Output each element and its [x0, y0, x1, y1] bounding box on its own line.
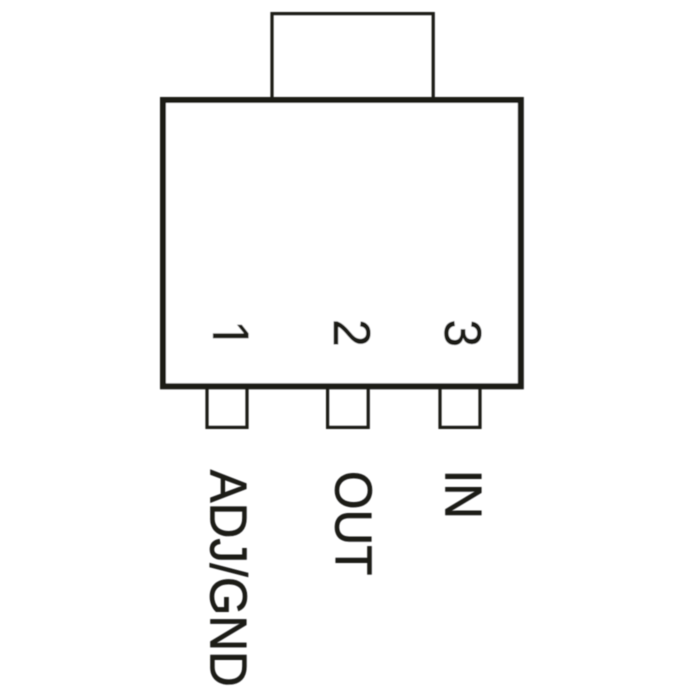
package tab (metal heatsink tab of SOT-89): [272, 14, 433, 102]
package body: [163, 100, 521, 386]
svg-text:3: 3: [434, 320, 492, 348]
svg-text:OUT: OUT: [324, 471, 382, 575]
pin number 1 (custom path, Arial-style rotated 90deg: horizontal stem + flag): [213, 325, 249, 339]
pin 3 lead: [440, 386, 480, 427]
svg-text:2: 2: [323, 319, 381, 347]
svg-text:IN: IN: [434, 470, 492, 519]
pin 1 lead: [207, 386, 247, 427]
pin 2 lead: [328, 386, 369, 427]
svg-text:ADJ/GND: ADJ/GND: [199, 470, 257, 687]
